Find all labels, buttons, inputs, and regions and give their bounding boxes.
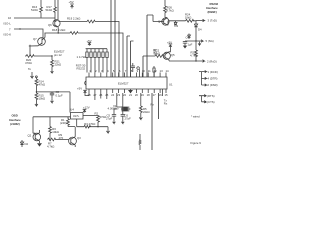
pullup resistor bank: [86, 49, 108, 73]
resistor small above IC pin: [153, 66, 155, 77]
power +5V Q5: [169, 44, 173, 48]
bus line 1: [110, 0, 112, 77]
transistor Q2: [33, 133, 41, 141]
svg-text:(DB9F): (DB9F): [208, 10, 217, 14]
power +5V pullup bank: [88, 43, 92, 46]
svg-text:4 (DTR): 4 (DTR): [208, 77, 218, 81]
svg-text:+5V: +5V: [167, 40, 172, 44]
svg-text:+5V: +5V: [69, 0, 74, 4]
svg-text:2 (RxD): 2 (RxD): [207, 59, 217, 63]
ground C5: [184, 46, 187, 48]
svg-text:Q4: Q4: [158, 20, 162, 24]
wire Q4 base feeder: [146, 15, 148, 77]
svg-text:RS232: RS232: [77, 66, 86, 70]
wire regulator input: [33, 116, 71, 118]
resistor R19 zigzag: [87, 20, 95, 23]
capacitor C2: [50, 93, 54, 98]
ground crystal caps: [113, 120, 125, 124]
svg-text:24: 24: [111, 93, 115, 97]
svg-text:(240): (240): [60, 121, 67, 125]
svg-text:+5V: +5V: [87, 39, 92, 43]
svg-text:0.1µF: 0.1µF: [56, 93, 63, 97]
svg-text:+12V: +12V: [83, 105, 90, 109]
junction Q6 emitter node: [58, 32, 59, 33]
svg-text:17: 17: [153, 93, 157, 97]
power +12V: [83, 109, 87, 112]
svg-text:27pF: 27pF: [125, 117, 132, 121]
ground triangle at IC bottom: [128, 90, 133, 93]
IC top pin numbers: [89, 69, 169, 73]
svg-text:3 (TxD): 3 (TxD): [208, 19, 217, 23]
svg-text:19: 19: [141, 93, 145, 97]
resistor R24 zigzag: [186, 19, 194, 22]
arrow down R5: [139, 115, 142, 120]
svg-text:Rx: Rx: [164, 102, 168, 106]
junction RxD node: [195, 60, 196, 61]
wire stub pin 26: [100, 93, 102, 99]
wire Q5 base feeder corner: [143, 55, 150, 57]
svg-text:16: 16: [8, 16, 12, 20]
svg-text:26: 26: [99, 93, 103, 97]
svg-text:Figure 9: Figure 9: [191, 141, 202, 145]
IC bottom pins: [89, 89, 166, 93]
diode D2 left: [20, 140, 23, 147]
wire stub pin 27: [94, 93, 96, 100]
regulator U4 box: [71, 113, 84, 120]
svg-text:(J1962): (J1962): [10, 122, 20, 126]
svg-text:Q7: Q7: [33, 37, 37, 41]
diode D3 inline: [174, 21, 177, 25]
ground SG: [198, 41, 201, 45]
svg-text:10kΩ: 10kΩ: [185, 15, 192, 19]
svg-text:27: 27: [93, 93, 97, 97]
svg-text:10kΩ: 10kΩ: [39, 97, 46, 101]
wire Q2 branch: [32, 117, 34, 133]
svg-text:510Ω: 510Ω: [46, 8, 53, 12]
svg-text:ISO-L: ISO-L: [4, 22, 12, 26]
wire pin down to regulator node: [106, 93, 108, 99]
svg-text:Q3: Q3: [77, 136, 81, 140]
arrow note below: [31, 72, 34, 78]
svg-text:4: 4: [107, 69, 109, 73]
junction memory divider node: [36, 91, 37, 92]
svg-text:ISO-K: ISO-K: [4, 33, 12, 37]
diode D4: [194, 21, 197, 42]
power +5V top left: [70, 4, 74, 9]
svg-text:U1: U1: [169, 83, 173, 87]
junction R20 R21 node: [51, 55, 52, 56]
svg-text:4.7kΩ: 4.7kΩ: [190, 54, 197, 58]
svg-text:10: 10: [142, 69, 146, 73]
wire ISO-K input: [14, 29, 43, 38]
svg-text:6: 6: [119, 69, 121, 73]
ground R21: [51, 70, 54, 73]
resistor R3 zigzag: [84, 125, 91, 128]
bus line 2: [114, 0, 116, 77]
svg-text:16: 16: [159, 93, 163, 97]
svg-text:7: 7: [125, 69, 127, 73]
svg-text:470Ω: 470Ω: [100, 115, 107, 119]
svg-text:22: 22: [123, 93, 127, 97]
svg-text:R19 2.2kΩ: R19 2.2kΩ: [67, 17, 80, 21]
resistor R1: [67, 117, 76, 127]
resistor R6: [49, 117, 52, 140]
svg-text:Q2: Q2: [28, 134, 32, 138]
crystal X1: [124, 107, 128, 111]
transistor Q3: [69, 137, 77, 145]
svg-text:Q5: Q5: [171, 53, 175, 57]
long wire IC pin down B: [158, 93, 160, 119]
svg-text:C: C: [186, 35, 188, 39]
svg-text:0Ω: 0Ω: [153, 51, 157, 55]
ground arrow R3 node: [106, 127, 109, 133]
resistor R26 top right: [164, 0, 167, 18]
pin stub right of IC: [162, 89, 164, 96]
memory input resistor chain: [36, 76, 38, 78]
resistor R7 zigzag: [48, 138, 69, 141]
svg-text:25: 25: [105, 93, 109, 97]
wire R3 row: [77, 119, 108, 127]
resistor R5: [139, 93, 142, 115]
wire TxD row: [170, 20, 196, 22]
pin 5 SG stub: [196, 40, 203, 43]
junction R2 R3 node: [97, 126, 98, 127]
ground C2: [51, 98, 54, 103]
bracket DCD DTR DSR: [199, 72, 202, 85]
svg-text:12: 12: [154, 69, 158, 73]
svg-text:D3: D3: [175, 24, 179, 28]
svg-text:1µF: 1µF: [188, 43, 193, 47]
junction ISO-K input node: [19, 28, 20, 29]
svg-text:6 (DSR): 6 (DSR): [208, 83, 218, 87]
svg-text:D4: D4: [198, 27, 202, 31]
wire box to R2: [83, 115, 98, 117]
wire Q7 emitter down: [29, 45, 38, 56]
resistor bottom right: [139, 134, 141, 150]
svg-text:pin 12: pin 12: [54, 53, 62, 57]
wire crystal pin 2: [122, 93, 124, 115]
svg-text:317L: 317L: [73, 114, 80, 118]
wire R19 to bus: [59, 22, 120, 78]
svg-text:27pF: 27pF: [106, 117, 113, 121]
svg-text:8 (CTS): 8 (CTS): [205, 100, 215, 104]
svg-text:470: 470: [59, 136, 64, 140]
svg-text:Rx: Rx: [151, 103, 155, 107]
svg-text:22kΩ: 22kΩ: [143, 110, 150, 114]
svg-text:7: 7: [9, 28, 11, 32]
capacitor C6q: [121, 115, 125, 120]
long wire IC pin down A: [151, 93, 153, 150]
svg-text:* wired: * wired: [191, 114, 200, 118]
IC bottom pin numbers: [87, 93, 168, 97]
svg-text:1 (DCD): 1 (DCD): [208, 70, 218, 74]
IC ELM327 body: [85, 77, 167, 89]
ground chain: [35, 102, 38, 107]
resistor R21: [51, 56, 54, 70]
svg-text:1 4.7kΩ: 1 4.7kΩ: [77, 55, 87, 59]
pin 8 CTS stub: [202, 101, 207, 103]
svg-text:ELM327: ELM327: [118, 82, 129, 86]
svg-text:Q6: Q6: [48, 23, 52, 27]
power +5V pin 28: [83, 90, 89, 95]
svg-text:4.7kΩ: 4.7kΩ: [166, 8, 173, 12]
LED above IC: [137, 67, 140, 77]
diode D5 small: [188, 34, 191, 40]
svg-text:R18 2.2kΩ: R18 2.2kΩ: [52, 28, 65, 32]
svg-text:11: 11: [148, 69, 151, 73]
pullup rail: [86, 48, 107, 50]
wire R18 to bus: [45, 33, 124, 77]
svg-text:23: 23: [117, 93, 121, 97]
resistor R17: [54, 0, 57, 12]
wire Q4 base jog: [147, 15, 164, 22]
transistor Q5: [163, 52, 170, 59]
capacitor C5: [183, 41, 196, 46]
bus line 4: [131, 41, 134, 77]
ground Q2: [38, 141, 41, 146]
svg-text:15: 15: [164, 93, 168, 97]
svg-text:5 (SG): 5 (SG): [206, 39, 214, 43]
resistor R2: [97, 116, 100, 127]
pin 6 DSR stub: [202, 84, 207, 86]
junction on R19 bus wire: [114, 21, 115, 22]
wire RxD row: [169, 60, 205, 63]
svg-text:21: 21: [129, 93, 133, 97]
IC top pins: [89, 73, 166, 78]
resistor R18 zigzag: [70, 32, 78, 35]
capacitor C6 above IC: [131, 63, 135, 72]
svg-text:D2: D2: [25, 142, 29, 146]
svg-text:14: 14: [165, 69, 169, 73]
resistor R22 zigzag: [150, 55, 165, 58]
transistor Q7: [38, 38, 46, 46]
resistor R25 vertical: [195, 41, 198, 61]
resistor R20 zigzag: [25, 55, 52, 58]
svg-text:47kΩ: 47kΩ: [39, 83, 46, 87]
transistor Q6: [53, 20, 60, 27]
svg-text:To: To: [28, 67, 31, 71]
svg-text:4.00MHz: 4.00MHz: [108, 107, 120, 111]
svg-text:U4: U4: [70, 108, 74, 112]
bracket RTS CTS: [199, 96, 202, 102]
svg-text:R2: R2: [95, 112, 99, 116]
pin 3 TxD stub: [196, 19, 205, 22]
wire ISO-L input: [14, 17, 55, 19]
svg-text:7 (RTS): 7 (RTS): [205, 94, 215, 98]
svg-text:20: 20: [135, 93, 139, 97]
pin 4 DTR stub: [202, 77, 207, 79]
junction SG node: [195, 40, 196, 41]
svg-text:510Ω: 510Ω: [31, 8, 38, 12]
svg-text:28: 28: [87, 93, 91, 97]
svg-text:+5V: +5V: [77, 87, 82, 91]
svg-text:18: 18: [147, 93, 151, 97]
resistor R16: [40, 0, 43, 18]
svg-text:2: 2: [95, 69, 97, 73]
wire Q5 base feeder: [142, 56, 144, 77]
svg-text:13: 13: [160, 69, 164, 73]
wire to C2: [36, 92, 70, 113]
bus line 3: [127, 36, 130, 77]
svg-text:R3 470Ω: R3 470Ω: [84, 122, 95, 126]
pin 7 RTS stub: [202, 95, 207, 97]
wire crystal pin 1: [117, 93, 122, 107]
transistor Q4: [162, 18, 169, 25]
svg-text:470Ω: 470Ω: [25, 61, 32, 65]
capacitor C5q: [112, 109, 117, 120]
pin 1 DCD stub: [202, 70, 207, 72]
junction on R18 bus wire: [118, 32, 119, 33]
svg-text:22kΩ: 22kΩ: [55, 63, 62, 67]
svg-text:4.7kΩ: 4.7kΩ: [47, 145, 54, 149]
